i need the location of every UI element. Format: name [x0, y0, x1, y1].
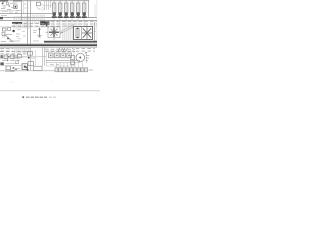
wire H8: [0, 70, 56, 72]
label marks mid row: [10, 31, 39, 42]
chain component C2: [28, 62, 33, 66]
relay K2: [6, 66, 10, 70]
dark terminal left: [1, 55, 3, 58]
motor M3 circle: [76, 53, 85, 62]
slash marks: [58, 48, 68, 52]
switch SW3: [18, 54, 22, 57]
bus line H2: [0, 13, 52, 15]
stub wires top: [4, 0, 51, 10]
terminal strip TB1: [12, 22, 22, 24]
wire vertical G2: [35, 50, 37, 66]
arrow actuator: [38, 27, 42, 37]
wire vertical D: [30, 0, 32, 45]
pointer lines: [61, 25, 76, 34]
dark node n1: [8, 56, 10, 58]
wire row3: [4, 65, 22, 67]
label text row bottom-left: [0, 50, 27, 54]
wire vertical right of motor: [85, 53, 87, 63]
wire bundle hatch lower-left: [14, 47, 30, 53]
bus line H1: [0, 10, 21, 12]
module row M2: [49, 53, 72, 58]
label text under relays: [45, 21, 97, 27]
relay bank U1-U6: [52, 0, 87, 18]
label dashes row2: [2, 59, 20, 61]
verticals into TB3: [57, 63, 83, 68]
dark terminal block2: [0, 62, 3, 65]
wire vertical H: [42, 47, 44, 66]
bus band right dark: [44, 41, 97, 43]
wire bundle hatch right-mid: [63, 25, 74, 40]
wire H0: [44, 5, 52, 7]
component cluster left-mid: [1, 27, 15, 41]
extra bottom-left marks: [0, 57, 26, 72]
stray mark2: [52, 82, 53, 83]
bus line H4: [0, 20, 97, 22]
marks near motor: [86, 56, 90, 61]
label text lower-left: [0, 48, 13, 53]
wire vertical right E: [88, 0, 90, 18]
terminal strip TB2: [40, 21, 50, 26]
right edge dashes: [94, 29, 97, 32]
node row2: [7, 60, 9, 62]
wire vertical A: [21, 0, 23, 21]
junction dots: [13, 67, 17, 70]
switch SW1: [4, 55, 8, 58]
label text mid band: [10, 22, 45, 27]
wire vertical I: [44, 47, 46, 66]
stub wire right of TB3: [89, 69, 94, 71]
fan unit M1: [74, 25, 93, 40]
wire vertical G: [30, 47, 32, 70]
label marks under bus: [50, 63, 59, 65]
chain component C1: [28, 52, 33, 56]
wire bundle hatch left: [13, 16, 30, 29]
bus line H9: [46, 60, 80, 62]
sheet bottom rule: [0, 89, 100, 92]
chain nodes lower: [26, 67, 29, 71]
chain node: [28, 57, 30, 59]
wire vertical right E2: [94, 4, 96, 18]
terminal block row TB3: [55, 68, 88, 72]
connector J1 cluster: [1, 2, 11, 11]
speckle top-left: [1, 2, 27, 15]
bus line H3: [0, 17, 97, 19]
wire vertical right F: [94, 22, 96, 42]
box B1: [34, 66, 43, 70]
terminal dark left edge: [0, 17, 3, 19]
label dashes mid-left: [6, 63, 20, 65]
bus band full dark: [0, 44, 97, 46]
relay box K0: [37, 2, 46, 11]
bus line H7: [0, 48, 30, 50]
blower F1 crossed box: [46, 27, 63, 40]
bus line H6: [0, 47, 97, 49]
label text near motor: [72, 48, 95, 53]
bus line H5: [0, 42, 97, 44]
stray mark1: [12, 82, 13, 83]
junction near motor: [85, 52, 87, 54]
caption faint tail: [49, 96, 56, 98]
enclosure outline: [47, 51, 75, 66]
wire vertical B: [22, 0, 24, 14]
mid-left scattered labels: [17, 30, 26, 39]
aux box A1: [71, 56, 75, 60]
chain label: [31, 57, 35, 59]
relay K3 dark cluster: [22, 64, 28, 70]
top bus wire: [0, 0, 89, 2]
dark tick above blower: [46, 22, 47, 27]
caption bullet: [22, 96, 24, 98]
bus line H10: [46, 62, 80, 64]
wire bundle hatch mid: [32, 15, 45, 25]
caption text dashes: [26, 96, 47, 98]
sheet right border: [96, 0, 98, 48]
aux box A2: [71, 61, 75, 65]
label text above modules: [45, 47, 75, 52]
extra tiny box P1: [15, 55, 18, 58]
wire H4b: [0, 26, 60, 28]
stub verticals under relay bank: [54, 18, 84, 27]
wire row1: [0, 56, 46, 58]
module inner dots: [50, 55, 70, 56]
switch SW2: [10, 55, 14, 58]
wire vertical C: [27, 0, 29, 45]
sensor S1: [13, 3, 18, 9]
extra tiny box P2: [16, 61, 19, 64]
